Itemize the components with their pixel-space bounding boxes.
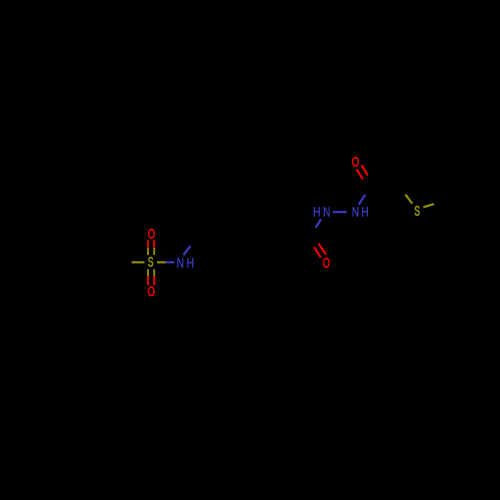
svg-text:O: O xyxy=(323,256,330,271)
svg-text:O: O xyxy=(148,227,155,242)
svg-text:N: N xyxy=(323,205,330,220)
svg-text:H: H xyxy=(186,255,194,270)
svg-text:S: S xyxy=(148,255,154,270)
svg-text:N: N xyxy=(177,255,184,270)
svg-text:H: H xyxy=(313,205,321,220)
svg-text:S: S xyxy=(414,204,420,219)
svg-text:H: H xyxy=(361,205,369,220)
svg-text:O: O xyxy=(148,284,155,299)
svg-text:N: N xyxy=(352,205,359,220)
svg-text:O: O xyxy=(352,154,359,169)
